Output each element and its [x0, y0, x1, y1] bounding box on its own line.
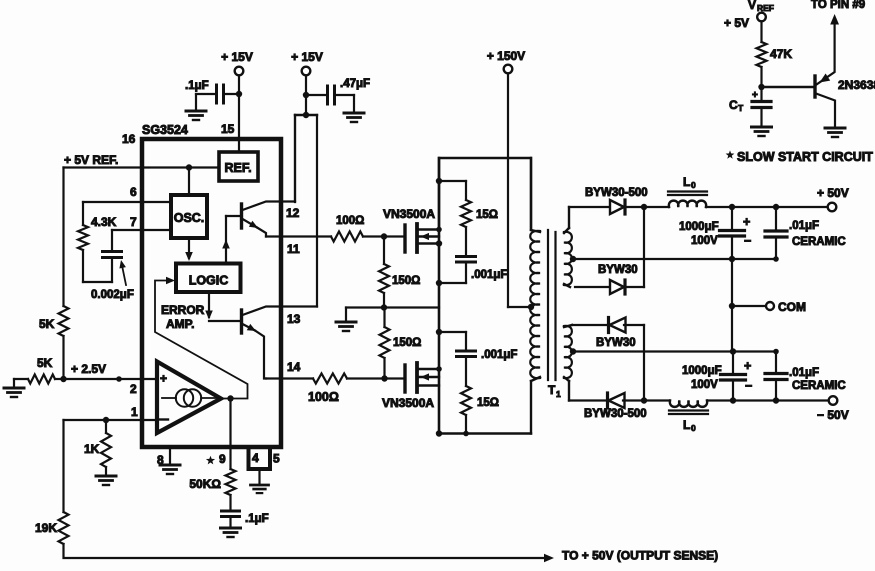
svg-text:−: −	[744, 234, 751, 248]
svg-text:− 50V: − 50V	[817, 408, 849, 422]
svg-text:.1μF: .1μF	[245, 513, 269, 525]
svg-text:47K: 47K	[770, 47, 792, 61]
svg-text:BYW30-500: BYW30-500	[584, 408, 647, 420]
svg-text:1000μF: 1000μF	[679, 221, 719, 233]
svg-text:100V: 100V	[691, 235, 718, 247]
svg-text:19K: 19K	[35, 521, 57, 535]
svg-text:4.3K: 4.3K	[91, 215, 117, 229]
svg-text:AMP.: AMP.	[166, 317, 194, 331]
svg-text:2N3638: 2N3638	[838, 78, 875, 92]
svg-text:15Ω: 15Ω	[477, 397, 499, 409]
svg-text:T: T	[738, 103, 744, 113]
svg-text:LOGIC: LOGIC	[189, 274, 229, 288]
svg-text:0: 0	[691, 423, 696, 433]
svg-text:+ 5V REF.: + 5V REF.	[64, 153, 118, 167]
svg-text:12: 12	[286, 206, 300, 220]
svg-text:TO + 50V (OUTPUT SENSE): TO + 50V (OUTPUT SENSE)	[562, 549, 718, 563]
svg-text:+ 2.5V: + 2.5V	[71, 362, 106, 376]
svg-text:BYW30: BYW30	[598, 264, 638, 276]
svg-text:150Ω: 150Ω	[393, 337, 421, 349]
svg-text:.47μF: .47μF	[340, 78, 370, 90]
svg-text:L: L	[683, 175, 690, 189]
svg-text:4: 4	[252, 451, 259, 465]
svg-text:0.002μF: 0.002μF	[91, 289, 134, 301]
svg-text:CERAMIC: CERAMIC	[792, 236, 846, 248]
svg-text:+: +	[743, 215, 750, 229]
svg-text:15Ω: 15Ω	[476, 209, 498, 221]
svg-text:.01μF: .01μF	[789, 367, 819, 379]
svg-text:L: L	[683, 418, 690, 432]
svg-text:+ 5V: + 5V	[724, 16, 749, 30]
svg-text:VN3500A: VN3500A	[382, 396, 434, 410]
svg-text:9: 9	[219, 452, 226, 466]
svg-text:.001μF: .001μF	[471, 269, 507, 281]
svg-text:100V: 100V	[691, 379, 718, 391]
svg-text:REF: REF	[757, 3, 774, 13]
svg-text:.001μF: .001μF	[481, 349, 517, 361]
svg-text:7: 7	[130, 215, 137, 229]
svg-text:BYW30-500: BYW30-500	[585, 187, 648, 199]
svg-text:5K: 5K	[37, 356, 53, 370]
svg-text:11: 11	[287, 242, 300, 256]
svg-text:1000μF: 1000μF	[682, 365, 722, 377]
svg-text:+: +	[752, 90, 758, 101]
svg-text:100Ω: 100Ω	[308, 390, 339, 404]
svg-text:+ 15V: + 15V	[221, 50, 253, 64]
svg-text:+ 150V: + 150V	[487, 49, 525, 63]
svg-text:150Ω: 150Ω	[392, 275, 420, 287]
svg-text:.01μF: .01μF	[789, 220, 819, 232]
svg-text:SG3524: SG3524	[142, 123, 188, 137]
svg-text:1K: 1K	[84, 442, 100, 456]
svg-text:BYW30: BYW30	[596, 337, 636, 349]
svg-text:−: −	[745, 379, 752, 393]
svg-text:50KΩ: 50KΩ	[189, 477, 221, 491]
svg-text:VN3500A: VN3500A	[383, 207, 435, 221]
svg-text:TO PIN #9: TO PIN #9	[811, 0, 865, 11]
svg-text:+: +	[160, 372, 167, 386]
svg-text:+ 50V: + 50V	[817, 186, 849, 200]
svg-text:+ 15V: + 15V	[291, 50, 323, 64]
svg-text:2: 2	[130, 382, 137, 396]
svg-text:16: 16	[122, 132, 136, 146]
svg-text:1: 1	[131, 405, 138, 419]
svg-text:COM: COM	[778, 300, 806, 314]
svg-text:SLOW START CIRCUIT: SLOW START CIRCUIT	[737, 150, 873, 164]
svg-text:V: V	[748, 0, 756, 12]
svg-text:T: T	[548, 383, 556, 397]
svg-text:1: 1	[556, 389, 561, 399]
svg-text:6: 6	[130, 185, 137, 199]
svg-text:.1μF: .1μF	[185, 80, 209, 92]
svg-text:CERAMIC: CERAMIC	[792, 380, 846, 392]
svg-text:OSC.: OSC.	[174, 211, 205, 225]
svg-text:13: 13	[287, 312, 301, 326]
svg-text:0: 0	[691, 180, 696, 190]
svg-text:C: C	[729, 98, 738, 112]
svg-text:14: 14	[287, 360, 301, 374]
svg-text:ERROR: ERROR	[161, 303, 205, 317]
svg-text:15: 15	[221, 122, 235, 136]
svg-text:8: 8	[157, 453, 164, 467]
svg-text:REF.: REF.	[224, 161, 251, 175]
svg-text:5K: 5K	[39, 317, 55, 331]
svg-text:+: +	[744, 359, 751, 373]
svg-text:100Ω: 100Ω	[336, 215, 364, 227]
svg-text:5: 5	[273, 452, 280, 466]
